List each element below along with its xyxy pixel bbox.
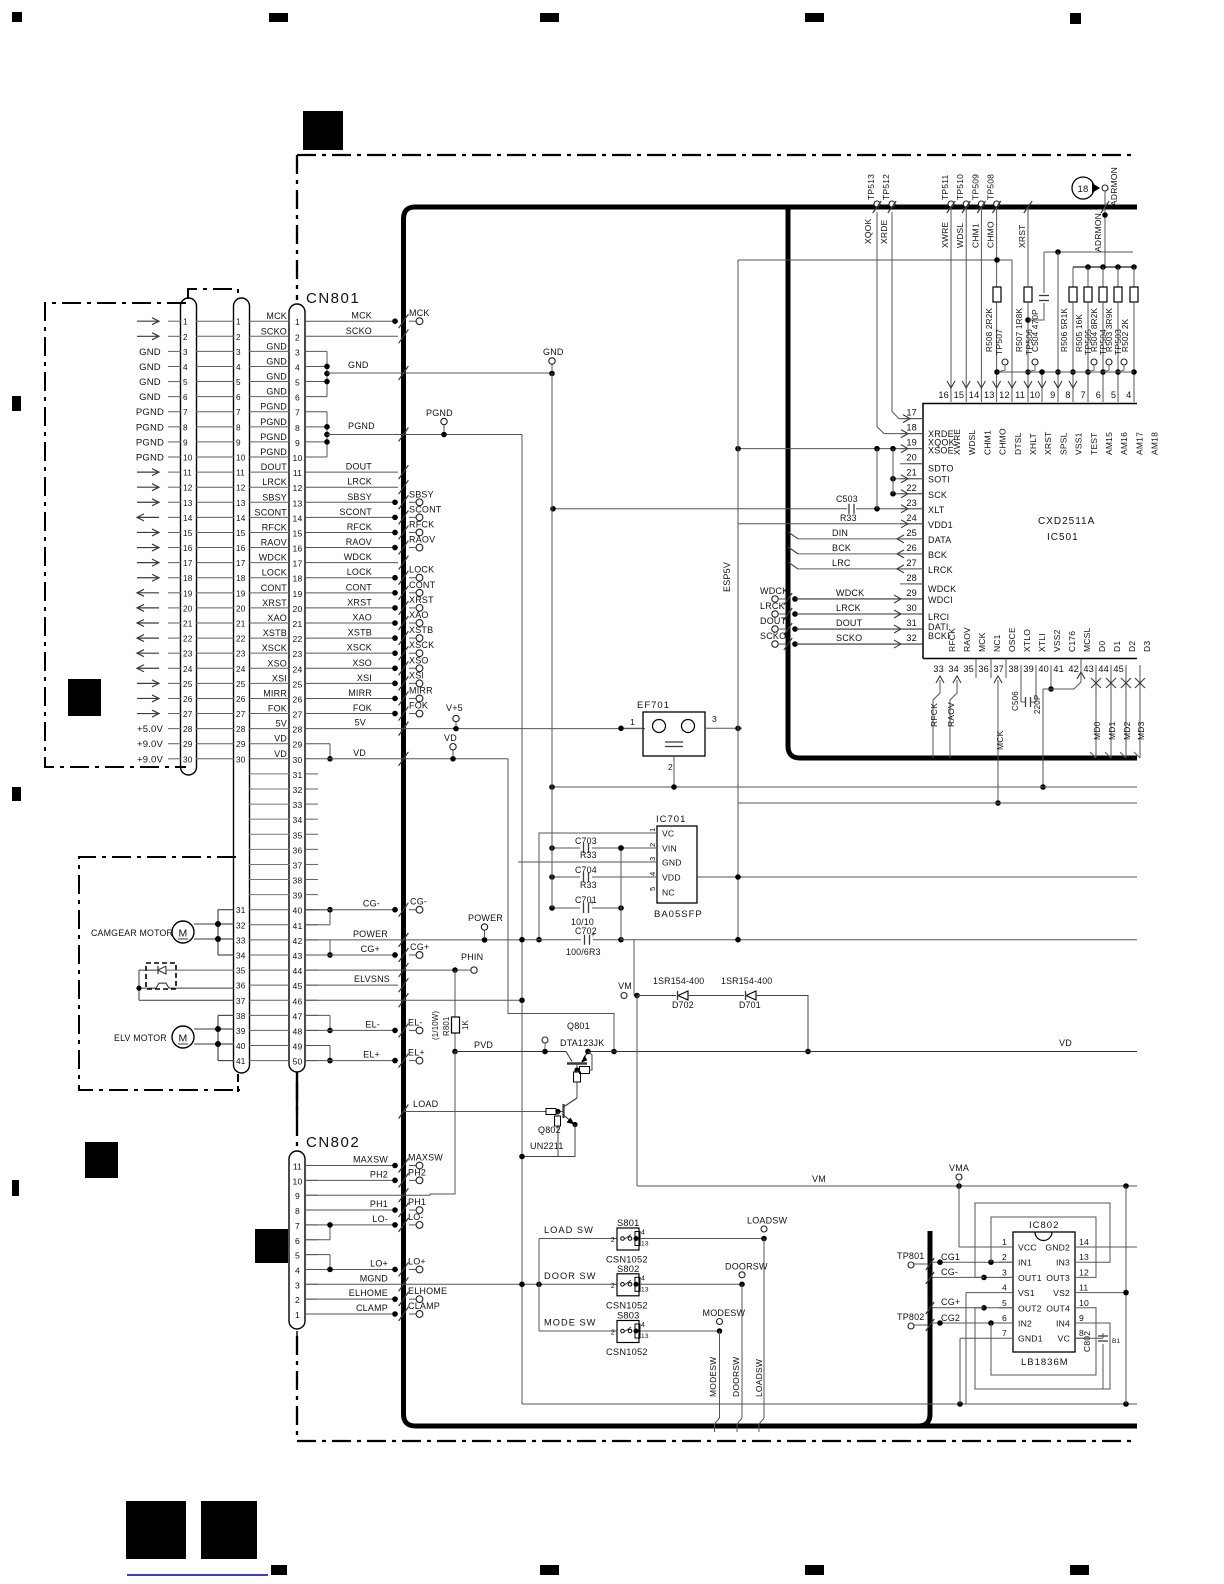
- GND2 wire right: [1089, 1246, 1137, 1248]
- wire WDCK to pin 29: [795, 598, 923, 600]
- svg-text:31: 31: [906, 618, 917, 628]
- svg-text:4: 4: [641, 1275, 645, 1282]
- svg-text:46: 46: [293, 996, 303, 1006]
- svg-text:CG-: CG-: [941, 1267, 958, 1277]
- terminal ELHOME: [392, 1296, 398, 1302]
- svg-text:XTLO: XTLO: [1022, 629, 1032, 652]
- svg-text:1: 1: [630, 717, 635, 727]
- svg-text:1: 1: [648, 828, 657, 832]
- CN801 signal wire XSTB row 22: [305, 637, 398, 639]
- CN802 signal ELHOME wire: [305, 1298, 398, 1300]
- GND terminal: [549, 371, 555, 377]
- harness row 31 wires: [249, 909, 290, 911]
- svg-text:EL-: EL-: [408, 1017, 423, 1027]
- PVD line: [455, 1051, 566, 1053]
- harness row 18 wires and pin numbers: [168, 577, 181, 579]
- svg-text:M: M: [179, 1033, 188, 1045]
- pullup rail y=267: [1073, 266, 1134, 268]
- svg-text:23: 23: [236, 650, 246, 659]
- svg-text:CLAMP: CLAMP: [408, 1301, 440, 1311]
- svg-text:XTLI: XTLI: [1037, 633, 1047, 652]
- svg-text:C176: C176: [1067, 631, 1077, 652]
- svg-text:MCK: MCK: [266, 311, 287, 321]
- svg-text:R506 5R1K: R506 5R1K: [1060, 308, 1069, 352]
- svg-text:GND: GND: [266, 356, 287, 366]
- svg-text:MCK: MCK: [995, 730, 1005, 750]
- svg-text:37: 37: [293, 860, 303, 870]
- svg-text:XSI: XSI: [272, 673, 287, 683]
- terminal MCK: [392, 318, 398, 324]
- CN801 signal wire SBSY row 13: [305, 501, 398, 503]
- CN801 row 37 stub to strip: [249, 863, 290, 865]
- svg-text:4: 4: [641, 1230, 645, 1237]
- svg-text:13: 13: [984, 390, 995, 400]
- svg-text:6: 6: [295, 1236, 300, 1246]
- svg-text:MODESW: MODESW: [703, 1308, 746, 1318]
- svg-text:TP512: TP512: [881, 174, 891, 200]
- svg-text:21: 21: [183, 620, 193, 629]
- registration bar bottom 2: [540, 1565, 559, 1575]
- outer board outline thick bus: [415, 205, 1137, 210]
- svg-text:13: 13: [641, 1241, 649, 1248]
- svg-text:MAXSW: MAXSW: [408, 1153, 443, 1163]
- svg-text:LRCK: LRCK: [836, 603, 861, 613]
- terminal XRST: [392, 605, 398, 611]
- photo-interrupter transistor: [150, 983, 174, 988]
- svg-text:LO-: LO-: [372, 1214, 388, 1224]
- svg-text:IN2: IN2: [1018, 1319, 1032, 1329]
- svg-text:MCK: MCK: [409, 308, 430, 318]
- svg-text:EL-: EL-: [365, 1019, 380, 1029]
- svg-text:36: 36: [293, 845, 303, 855]
- wire to pin19 XSOE: [738, 448, 923, 450]
- svg-text:MIRR: MIRR: [348, 688, 372, 698]
- svg-text:23: 23: [293, 649, 303, 659]
- svg-text:14: 14: [183, 514, 193, 523]
- terminal SBSY: [392, 499, 398, 505]
- resistor R502 2K: [1133, 267, 1135, 287]
- svg-text:IC802: IC802: [1029, 1220, 1059, 1231]
- CN801 signal wire SCKO row 2: [305, 335, 398, 337]
- switch common bracket: [538, 1239, 540, 1332]
- svg-text:NC1: NC1: [992, 634, 1002, 652]
- svg-text:22: 22: [183, 635, 193, 644]
- svg-text:LRCK: LRCK: [347, 477, 372, 487]
- direction arrow row 12: [137, 486, 159, 488]
- ADRMON arrow: [1092, 183, 1100, 193]
- svg-text:D701: D701: [739, 1000, 761, 1010]
- svg-text:GND: GND: [662, 858, 682, 868]
- svg-text:45: 45: [293, 981, 303, 991]
- svg-text:XRST: XRST: [1017, 225, 1027, 248]
- svg-text:26: 26: [183, 695, 193, 704]
- EL+ wire row 50: [305, 1060, 398, 1062]
- svg-text:C504 470P: C504 470P: [1031, 309, 1040, 352]
- svg-text:NC: NC: [662, 888, 675, 898]
- svg-text:CHMO: CHMO: [986, 221, 996, 248]
- svg-text:27: 27: [293, 710, 303, 720]
- svg-text:CAMGEAR MOTOR: CAMGEAR MOTOR: [91, 928, 173, 938]
- svg-text:35: 35: [293, 830, 303, 840]
- svg-text:B1: B1: [1112, 1338, 1121, 1345]
- SPSL riser: [1057, 252, 1059, 402]
- svg-text:13: 13: [641, 1333, 649, 1340]
- IC802 driver body: [1013, 1232, 1075, 1352]
- svg-text:11: 11: [183, 469, 192, 478]
- svg-text:22: 22: [906, 483, 917, 493]
- svg-text:TP509: TP509: [970, 174, 980, 200]
- terminal CONT: [392, 590, 398, 596]
- svg-text:4: 4: [648, 872, 657, 876]
- svg-text:XRST: XRST: [409, 595, 434, 605]
- svg-text:R801: R801: [442, 1017, 451, 1036]
- LOADSW wire to bus: [763, 1239, 765, 1419]
- harness row 35 wires: [249, 969, 290, 971]
- svg-text:S801: S801: [617, 1218, 640, 1228]
- dash-dot stub below strip B: [237, 1074, 239, 1092]
- svg-text:(1/10W): (1/10W): [431, 1011, 440, 1040]
- svg-text:TP511: TP511: [940, 175, 950, 200]
- VS1 wire: [966, 1292, 999, 1294]
- svg-text:SPSL: SPSL: [1058, 432, 1068, 455]
- wire-harness strip A: [181, 298, 197, 775]
- svg-text:EL+: EL+: [408, 1048, 425, 1058]
- harness row 5 wires and pin numbers: [168, 381, 181, 383]
- svg-text:C703: C703: [575, 836, 597, 846]
- svg-text:VD: VD: [274, 749, 287, 759]
- CN801 signal wire MIRR row 26: [305, 697, 398, 699]
- blue underline bottom-left: [127, 1574, 268, 1576]
- svg-text:6: 6: [1096, 390, 1101, 400]
- filter EF701 body: [643, 712, 705, 756]
- svg-text:S803: S803: [617, 1311, 640, 1321]
- svg-text:ELHOME: ELHOME: [408, 1286, 447, 1296]
- svg-text:41: 41: [236, 1057, 246, 1066]
- svg-text:VC: VC: [662, 829, 674, 839]
- EL- bracket rows 47-48: [305, 1014, 330, 1016]
- svg-text:SBSY: SBSY: [409, 489, 434, 499]
- POWER/CG+ bracket rows 42-43: [329, 940, 331, 955]
- GND1 wire down: [960, 1337, 999, 1339]
- harness row 17 wires and pin numbers: [168, 562, 181, 564]
- svg-text:25: 25: [183, 680, 193, 689]
- svg-text:CONT: CONT: [409, 580, 436, 590]
- svg-text:D3: D3: [1142, 641, 1152, 652]
- svg-text:27: 27: [236, 710, 246, 719]
- VD riser down right side of CN801: [508, 759, 614, 1052]
- D0-D3 wires with crossing marks: [1095, 665, 1097, 758]
- svg-text:11: 11: [236, 469, 245, 478]
- svg-text:29: 29: [293, 740, 303, 750]
- Q802 emitter to ground riser: [522, 1125, 575, 1157]
- dash-dot border bottom: [297, 1440, 1137, 1442]
- GND bus bracket rows 3-6: [305, 350, 327, 352]
- svg-text:TP507: TP507: [994, 329, 1004, 355]
- svg-text:POWER: POWER: [468, 913, 503, 923]
- VSS2 ground riser: [1050, 665, 1052, 689]
- svg-text:16: 16: [293, 544, 303, 554]
- svg-text:XSCK: XSCK: [347, 643, 372, 653]
- svg-text:5: 5: [295, 1251, 300, 1261]
- PGND bus bracket rows 7-10: [305, 411, 327, 413]
- direction arrow row 18: [137, 577, 159, 579]
- svg-text:18: 18: [236, 574, 246, 583]
- svg-text:ADRMON: ADRMON: [1109, 167, 1119, 206]
- svg-text:CHM1: CHM1: [970, 223, 980, 248]
- registration bar left 2: [12, 787, 21, 801]
- svg-text:2: 2: [648, 843, 657, 847]
- switch S801 output wire: [640, 1238, 764, 1240]
- svg-text:PGND: PGND: [136, 453, 164, 464]
- svg-text:50: 50: [293, 1057, 303, 1067]
- svg-text:20: 20: [293, 604, 303, 614]
- svg-text:XSTB: XSTB: [348, 628, 372, 638]
- svg-text:AM18: AM18: [1149, 432, 1159, 455]
- XTLI riser: [1035, 665, 1037, 702]
- harness row 22 wires and pin numbers: [168, 637, 181, 639]
- svg-text:WDCK: WDCK: [836, 588, 864, 598]
- registration bar bottom 1: [271, 1565, 287, 1575]
- CN802 signal PH2 wire: [305, 1179, 398, 1181]
- svg-text:XSTB: XSTB: [263, 628, 287, 638]
- RAOV wire from bus to pin34: [950, 680, 957, 758]
- svg-text:18: 18: [293, 574, 303, 584]
- svg-text:21: 21: [236, 620, 246, 629]
- svg-text:6: 6: [183, 393, 188, 402]
- terminal LOCK: [392, 575, 398, 581]
- svg-text:C506: C506: [1011, 691, 1020, 711]
- svg-text:SCKO: SCKO: [261, 326, 287, 336]
- wire-harness strip B: [234, 298, 250, 1073]
- svg-text:MCSL: MCSL: [1082, 628, 1092, 652]
- svg-text:D2: D2: [1127, 641, 1137, 652]
- EF701 windings: [653, 720, 666, 733]
- svg-text:XQOK: XQOK: [863, 219, 873, 244]
- svg-text:23: 23: [906, 498, 917, 508]
- svg-text:LB1836M: LB1836M: [1021, 1357, 1069, 1368]
- svg-text:VS2: VS2: [1053, 1288, 1070, 1298]
- harness row 11 wires and pin numbers: [168, 471, 181, 473]
- VD power line: [588, 1051, 1137, 1053]
- svg-text:24: 24: [293, 664, 303, 674]
- svg-text:27: 27: [183, 710, 193, 719]
- V+5 terminal: [453, 726, 459, 732]
- svg-text:34: 34: [948, 664, 959, 674]
- svg-text:15: 15: [236, 529, 246, 538]
- svg-text:45: 45: [1113, 664, 1124, 674]
- pin20 SDTO stub: [908, 463, 923, 465]
- svg-text:FOK: FOK: [268, 704, 287, 714]
- svg-text:21: 21: [293, 619, 303, 629]
- svg-text:48: 48: [293, 1026, 303, 1036]
- svg-text:XRDE: XRDE: [879, 219, 889, 244]
- dash-dot box around motors lower: [79, 857, 240, 1090]
- svg-text:2: 2: [611, 1237, 615, 1244]
- svg-text:38: 38: [1008, 664, 1019, 674]
- svg-text:C802: C802: [1082, 1331, 1092, 1352]
- svg-text:LRCI: LRCI: [928, 612, 949, 622]
- harness row 27 wires and pin numbers: [168, 713, 181, 715]
- IC CXD2511A IC501 body: [923, 404, 1137, 659]
- svg-text:SCKO: SCKO: [346, 326, 372, 336]
- svg-text:39: 39: [1023, 664, 1034, 674]
- svg-text:PVD: PVD: [474, 1040, 493, 1050]
- svg-text:8: 8: [236, 423, 241, 432]
- pin28 WDCK stub: [908, 583, 923, 585]
- svg-text:RFCK: RFCK: [929, 703, 939, 727]
- VD bracket rows 29-30: [305, 743, 330, 745]
- terminal FOK: [392, 711, 398, 717]
- PHIN riser to CN802 pin9: [430, 1052, 455, 1195]
- ADRMON terminal: [1102, 185, 1108, 191]
- resistor R508 2R2K: [993, 287, 1001, 302]
- svg-text:9: 9: [1079, 1313, 1084, 1323]
- svg-text:37: 37: [236, 997, 246, 1006]
- svg-text:24: 24: [183, 665, 193, 674]
- svg-text:FOK: FOK: [353, 703, 372, 713]
- direction arrow row 14: [137, 516, 159, 518]
- svg-text:WDSL: WDSL: [955, 223, 965, 248]
- CN801 row 35 stub to strip: [249, 833, 290, 835]
- dash-dot border top: [297, 154, 1137, 156]
- svg-text:CN802: CN802: [306, 1134, 360, 1151]
- CN801 signal wire SCONT row 14: [305, 516, 398, 518]
- svg-text:2: 2: [295, 1295, 300, 1305]
- svg-text:IN4: IN4: [1056, 1319, 1070, 1329]
- harness row 10 wires and pin numbers: [168, 456, 181, 458]
- harness row 38 wires: [249, 1014, 290, 1016]
- svg-text:XSO: XSO: [267, 658, 287, 668]
- svg-text:5: 5: [183, 378, 188, 387]
- svg-text:GND: GND: [139, 377, 161, 388]
- svg-text:CONT: CONT: [346, 582, 373, 592]
- direction arrow row 19: [137, 592, 159, 594]
- POWER wire row 42: [305, 939, 522, 941]
- switch S803 output wire: [640, 1330, 720, 1332]
- svg-text:+9.0V: +9.0V: [137, 754, 164, 765]
- svg-text:SBSY: SBSY: [262, 492, 287, 502]
- svg-text:39: 39: [293, 891, 303, 901]
- CN802 signal LO+ wire: [305, 1268, 398, 1270]
- svg-text:R33: R33: [580, 850, 597, 860]
- terminal XSCK: [392, 650, 398, 656]
- loop IN1-OUT3 inner top: [991, 1217, 1096, 1277]
- harness row 37 wires: [249, 999, 290, 1001]
- svg-text:BA05SFP: BA05SFP: [654, 909, 703, 920]
- svg-text:CG+: CG+: [941, 1297, 960, 1307]
- direction arrow row 24: [137, 667, 159, 669]
- svg-text:TP802: TP802: [897, 1312, 925, 1322]
- VS2 wire to VM riser: [1089, 1292, 1126, 1294]
- svg-text:19: 19: [236, 589, 246, 598]
- svg-text:OUT3: OUT3: [1046, 1273, 1070, 1283]
- svg-text:9: 9: [183, 438, 188, 447]
- svg-text:4: 4: [295, 1265, 300, 1275]
- svg-text:9: 9: [295, 438, 300, 448]
- svg-text:VM: VM: [812, 1174, 826, 1184]
- svg-text:DOUT: DOUT: [836, 618, 863, 628]
- svg-text:14: 14: [293, 513, 303, 523]
- svg-text:49: 49: [293, 1042, 303, 1052]
- CG- wire row 40: [305, 909, 398, 911]
- svg-text:31: 31: [236, 906, 246, 915]
- svg-text:GND: GND: [266, 341, 287, 351]
- svg-text:37: 37: [993, 664, 1004, 674]
- CN801 signal wire LOCK row 18: [305, 577, 398, 579]
- CN801 row 34 stub to strip: [249, 818, 290, 820]
- ELVSNS wire row 45: [305, 984, 398, 986]
- photo-interrupter external wiring: [139, 969, 158, 971]
- svg-text:XSO: XSO: [409, 655, 429, 665]
- svg-text:SCKO: SCKO: [836, 633, 862, 643]
- harness row 23 wires and pin numbers: [168, 652, 181, 654]
- svg-text:VD: VD: [444, 733, 457, 743]
- svg-text:33: 33: [236, 936, 246, 945]
- svg-text:SCK: SCK: [928, 490, 947, 500]
- svg-text:3: 3: [1002, 1267, 1007, 1277]
- direction arrow row 22: [137, 637, 159, 639]
- GND net wire: [327, 372, 550, 374]
- svg-text:CG+: CG+: [361, 944, 380, 954]
- svg-text:8: 8: [295, 1206, 300, 1216]
- svg-text:34: 34: [293, 815, 303, 825]
- svg-text:XSO: XSO: [352, 658, 372, 668]
- svg-text:+9.0V: +9.0V: [137, 739, 164, 750]
- svg-text:ELHOME: ELHOME: [349, 1288, 388, 1298]
- resistor R503 R9K: [1117, 267, 1119, 287]
- MODESW wire to bus: [719, 1331, 721, 1418]
- svg-text:4: 4: [236, 363, 241, 372]
- svg-text:10: 10: [1030, 390, 1041, 400]
- PGND riser x=522: [521, 435, 523, 1405]
- registration mark top-right: [1070, 13, 1081, 24]
- svg-text:XSCK: XSCK: [409, 640, 434, 650]
- wire CHMO to pin 13: [996, 207, 998, 402]
- testpoint junction rail y=372: [997, 371, 1134, 373]
- dash-dot box around harness labels upper: [45, 303, 186, 767]
- svg-text:14: 14: [236, 514, 246, 523]
- svg-text:AM16: AM16: [1119, 432, 1129, 455]
- svg-text:IC701: IC701: [656, 814, 686, 825]
- harness row 29 wires and pin numbers: [168, 743, 181, 745]
- svg-text:30: 30: [906, 603, 917, 613]
- harness row 36 wires: [249, 984, 290, 986]
- svg-text:+: +: [591, 932, 595, 939]
- svg-text:MODE SW: MODE SW: [544, 1318, 596, 1328]
- svg-text:TP801: TP801: [897, 1251, 925, 1261]
- svg-text:RAOV: RAOV: [962, 627, 972, 652]
- switch S802 output wire: [640, 1283, 742, 1285]
- CN801 row 36 stub to strip: [249, 848, 290, 850]
- svg-text:32: 32: [236, 921, 246, 930]
- svg-text:R508 2R2K: R508 2R2K: [985, 308, 994, 352]
- svg-text:VCC: VCC: [1018, 1243, 1037, 1253]
- svg-text:VM: VM: [618, 981, 632, 991]
- svg-text:16: 16: [183, 544, 193, 553]
- svg-text:11: 11: [293, 1162, 302, 1172]
- LO+ bracket pins 5-4: [329, 1255, 331, 1270]
- svg-text:26: 26: [236, 695, 246, 704]
- D701 output to VD: [756, 996, 808, 1052]
- VD terminal: [450, 756, 456, 762]
- svg-text:26: 26: [906, 543, 917, 553]
- svg-text:33: 33: [293, 800, 303, 810]
- svg-text:4: 4: [641, 1322, 645, 1329]
- svg-text:WDCK: WDCK: [344, 552, 372, 562]
- VM riser right side: [1125, 1186, 1127, 1404]
- svg-text:TP508: TP508: [986, 174, 996, 200]
- registration bar top 3: [805, 13, 824, 22]
